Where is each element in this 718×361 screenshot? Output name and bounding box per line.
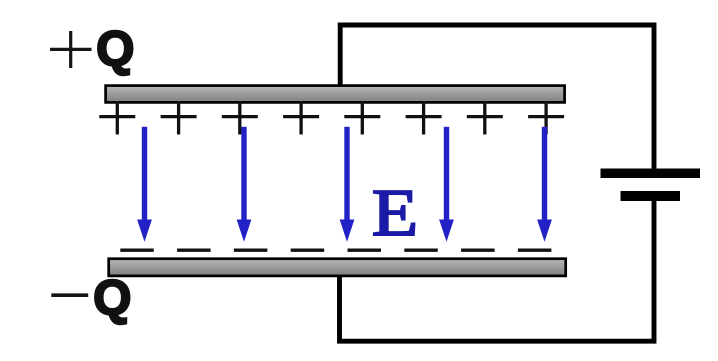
plus charge 6: [406, 101, 442, 135]
svg-text:E: E: [372, 177, 418, 250]
plus charge 5: [344, 101, 380, 135]
battery positive terminal (long plate): [601, 169, 701, 179]
top capacitor plate: [106, 86, 565, 103]
negative charge dash symbols above bottom plate: [120, 248, 551, 251]
minus charge 4: [291, 248, 325, 251]
svg-text:Q: Q: [96, 23, 134, 77]
label -Q minus sign: [51, 293, 88, 297]
plus charge 1: [99, 101, 135, 135]
plus charge 8: [528, 101, 564, 135]
minus charge 8: [518, 248, 552, 251]
plus charge 7: [467, 101, 503, 135]
minus charge 6: [404, 248, 438, 251]
battery negative terminal (short plate): [621, 191, 681, 201]
svg-text:Q: Q: [93, 272, 131, 326]
wire from bottom plate to battery negative: [340, 200, 655, 341]
bottom capacitor plate: [109, 259, 566, 276]
electric field arrow 1: [137, 127, 152, 242]
electric field arrow 3: [340, 127, 355, 242]
label E (electric field): [372, 177, 418, 250]
electric field arrow 2: [237, 127, 252, 242]
minus charge 1: [120, 248, 154, 251]
electric field arrow 5: [537, 127, 552, 242]
wire from top plate to battery positive: [340, 25, 654, 169]
minus charge 7: [461, 248, 495, 251]
minus charge 3: [234, 248, 268, 251]
electric field arrow 4: [439, 127, 454, 242]
minus charge 5: [348, 248, 382, 251]
label +Q plus sign: [50, 31, 92, 68]
plus charge 3: [222, 101, 258, 135]
minus charge 2: [177, 248, 211, 251]
plus charge 2: [161, 101, 197, 135]
plus charge 4: [283, 101, 319, 135]
positive charge + symbols under top plate: [99, 101, 564, 135]
